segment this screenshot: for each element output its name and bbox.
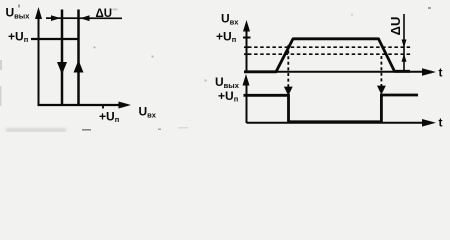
svg-text:t: t xyxy=(439,116,443,130)
svg-text:ΔU: ΔU xyxy=(388,17,403,36)
axis t (horizontal) xyxy=(247,68,437,76)
arrow up to lower threshold xyxy=(402,54,407,62)
tick upper threshold on axis xyxy=(244,46,249,48)
node dashed link falling crossing xyxy=(377,56,386,95)
axis t (horizontal) xyxy=(247,119,437,127)
svg-text:ΔU: ΔU xyxy=(96,8,113,20)
wire +Up level line xyxy=(31,38,80,40)
tick lower threshold on axis xyxy=(244,53,249,55)
axis Uvx (horizontal) xyxy=(38,102,132,109)
wire left branch of hysteresis loop xyxy=(61,10,64,105)
node dashed link rising crossing xyxy=(284,45,293,96)
axis Uvx (vertical) xyxy=(243,20,250,72)
wire input trapezoid waveform xyxy=(244,39,410,72)
dimension dU vertical line xyxy=(403,14,405,71)
arrow down on left branch xyxy=(57,62,67,75)
axis Uvyh (vertical) xyxy=(35,7,42,106)
arrow up on right branch xyxy=(74,60,84,73)
axis Uvyh (vertical) xyxy=(243,74,250,123)
wire right branch of hysteresis loop xyxy=(77,10,80,105)
tick +Up on vertical axis xyxy=(243,37,251,39)
node lower threshold dashed level xyxy=(248,53,411,55)
dimension dU left arrow xyxy=(51,15,61,21)
dimension dU line xyxy=(46,17,122,19)
wire output rectangular waveform xyxy=(244,95,419,122)
dimension dU right arrow xyxy=(80,15,90,21)
svg-text:t: t xyxy=(439,66,443,80)
node upper threshold dashed level xyxy=(248,46,411,48)
arrow down to upper threshold xyxy=(402,40,407,48)
tick +Up on horizontal axis xyxy=(102,104,104,109)
